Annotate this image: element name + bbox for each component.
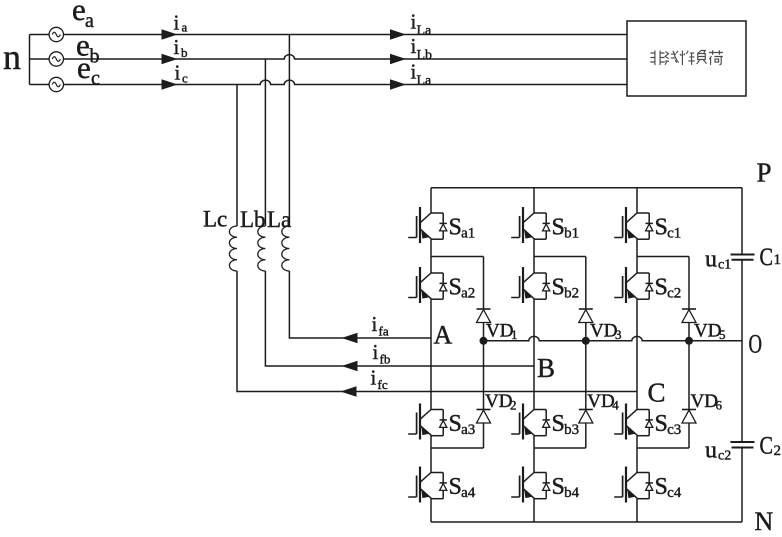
arrow ia [162, 29, 178, 39]
label Sa4 [449, 474, 476, 501]
label iLb [411, 34, 433, 63]
wire phase a [30, 34, 628, 36]
node B label [537, 353, 555, 383]
wire dc bus lower [741, 448, 743, 523]
svg-text:S: S [552, 411, 565, 437]
svg-text:P: P [757, 158, 772, 188]
svg-text:b4: b4 [564, 485, 580, 501]
wire drop from phase a to inductor La [288, 35, 290, 227]
junction dot at VD3-VD4 midpoint [582, 337, 590, 345]
svg-text:i: i [175, 61, 181, 85]
arrow iLb [390, 54, 406, 64]
svg-text:e: e [77, 50, 91, 85]
svg-text:La: La [417, 74, 433, 89]
transistor Sc2 [614, 267, 653, 303]
diode VD5 [682, 309, 696, 323]
svg-text:VD: VD [486, 321, 513, 342]
transistor Sa1 [408, 207, 447, 243]
svg-text:Lb: Lb [240, 207, 266, 232]
wire leg C vertical [636, 188, 638, 522]
svg-text:S: S [655, 411, 668, 437]
transistor Sa2 [408, 267, 447, 303]
svg-text:b3: b3 [564, 422, 579, 438]
wire leg B upper clamp tap [534, 256, 586, 258]
junction dot at VD1-VD2 midpoint [480, 337, 488, 345]
svg-text:VD: VD [694, 321, 721, 342]
svg-text:fa: fa [379, 324, 389, 339]
arrow ic [162, 79, 178, 89]
ac source ec [49, 77, 63, 91]
diode VD1 [477, 309, 491, 323]
label VD1 [486, 321, 518, 343]
label Lb [240, 207, 266, 232]
wire positive rail P [431, 187, 742, 189]
diode VD4 [579, 410, 593, 424]
label Sb4 [552, 474, 580, 501]
wire clamp column C middle [688, 323, 690, 410]
diode VD6 [682, 410, 696, 424]
wire clamp column C lower [688, 423, 690, 448]
svg-text:S: S [449, 275, 462, 301]
svg-text:C: C [760, 244, 774, 271]
svg-text:S: S [655, 215, 668, 241]
svg-text:1: 1 [774, 252, 782, 268]
svg-text:i: i [372, 312, 378, 336]
junction dot at VD5-VD6 midpoint [685, 337, 693, 345]
transistor Sb2 [511, 267, 550, 303]
label VD2 [485, 391, 517, 413]
svg-text:c2: c2 [667, 286, 681, 302]
label La [267, 207, 291, 232]
diode VD3 [579, 309, 593, 323]
label uc1 [705, 247, 731, 273]
wire leg B lower clamp tap [534, 447, 586, 449]
label C2 [760, 433, 782, 460]
svg-text:Lb: Lb [417, 48, 433, 63]
label ifa [372, 312, 389, 339]
label Sa1 [449, 215, 476, 242]
wire clamp column B middle [585, 323, 587, 410]
capacitor C2 [731, 442, 755, 448]
wire negative rail N [431, 521, 742, 523]
label Sb1 [552, 215, 580, 242]
label eb [76, 28, 100, 68]
svg-text:n: n [3, 37, 21, 77]
label VD3 [590, 321, 622, 343]
svg-text:C: C [648, 378, 666, 408]
label Sc3 [655, 411, 682, 438]
svg-text:u: u [705, 438, 717, 464]
node A label [434, 321, 453, 350]
transistor Sc3 [614, 404, 653, 440]
svg-text:La: La [267, 207, 291, 232]
svg-text:O: O [749, 330, 763, 359]
svg-text:b1: b1 [564, 226, 579, 242]
svg-text:a: a [182, 20, 188, 35]
svg-text:2: 2 [510, 398, 517, 413]
wire neutral vertical from node n [29, 35, 31, 85]
svg-text:i: i [174, 35, 180, 59]
wire phase b with hop over drop of phase a [30, 55, 628, 59]
svg-text:fb: fb [380, 352, 391, 367]
svg-text:C: C [760, 433, 774, 460]
svg-text:b2: b2 [564, 286, 579, 302]
load box text: he [709, 50, 723, 65]
label C1 [760, 244, 782, 271]
svg-text:u: u [705, 247, 717, 273]
load box text: fei [650, 51, 664, 66]
load box text: xian [665, 51, 679, 65]
svg-text:S: S [655, 474, 668, 500]
diode VD2 [477, 410, 491, 424]
svg-text:N: N [755, 507, 774, 536]
svg-text:a1: a1 [461, 226, 475, 242]
wire leg A lower clamp tap [431, 447, 484, 449]
inductor Lb [258, 226, 266, 271]
transistor Sb1 [511, 207, 550, 243]
wire clamp column B upper [585, 257, 587, 310]
svg-text:a4: a4 [461, 485, 476, 501]
svg-text:1: 1 [511, 327, 518, 342]
wire inductor Lc to node C [237, 271, 637, 392]
wire clamp column A upper [483, 257, 485, 310]
label Lc [203, 207, 227, 232]
label Sb3 [552, 411, 580, 438]
label VD4 [587, 391, 619, 413]
wire leg B vertical [533, 188, 535, 522]
wire drop from phase b to inductor Lb [264, 59, 266, 226]
transistor Sc1 [614, 207, 653, 243]
label VD5 [694, 321, 726, 343]
wire inductor Lb to node B [265, 271, 534, 366]
transistor Sa4 [408, 467, 447, 503]
wire leg A upper clamp tap [431, 256, 484, 258]
label ifb [373, 340, 391, 367]
wire leg C upper clamp tap [637, 256, 689, 258]
svg-text:A: A [434, 321, 453, 350]
label ic [175, 61, 189, 86]
svg-text:c1: c1 [718, 258, 731, 273]
svg-text:i: i [371, 366, 377, 390]
wire dc bus upper [741, 188, 743, 255]
wire leg A vertical [430, 188, 432, 522]
capacitor C1 [731, 255, 755, 260]
wire clamp column C upper [688, 257, 690, 310]
wire leg C lower clamp tap [637, 447, 689, 449]
wire clamp column B lower [585, 423, 587, 448]
label VD6 [691, 391, 723, 413]
label N [755, 507, 774, 536]
transistor Sa3 [408, 404, 447, 440]
label Sc4 [655, 474, 682, 501]
arrow iLc (marked La) [390, 79, 406, 89]
svg-text:S: S [655, 275, 668, 301]
svg-text:S: S [449, 474, 462, 500]
svg-text:S: S [449, 411, 462, 437]
arrow ifb [342, 361, 358, 371]
svg-text:3: 3 [615, 327, 622, 342]
node C label [648, 378, 666, 408]
transistor Sb4 [511, 467, 550, 503]
svg-text:B: B [537, 353, 555, 383]
load box text: fu [697, 50, 707, 64]
svg-text:fc: fc [378, 377, 388, 392]
label Sa2 [449, 275, 476, 302]
transistor Sb3 [511, 404, 550, 440]
label O [749, 330, 763, 359]
svg-text:a3: a3 [461, 422, 475, 438]
label ib [174, 35, 188, 60]
label Sa3 [449, 411, 476, 438]
wire inductor La to node A [289, 271, 431, 338]
label ifc [371, 366, 388, 393]
ac source ea [49, 27, 63, 41]
label Sb2 [552, 275, 580, 302]
arrow ib [162, 54, 178, 64]
wire drop from phase c to inductor Lc [236, 85, 238, 227]
label Sc1 [655, 215, 682, 242]
ac source eb [49, 52, 63, 66]
inductor La [282, 226, 290, 271]
svg-text:c3: c3 [667, 422, 681, 438]
label Sc2 [655, 275, 682, 302]
svg-text:2: 2 [774, 443, 782, 459]
svg-text:e: e [72, 0, 86, 27]
svg-text:c: c [182, 71, 188, 86]
label ec [77, 50, 100, 90]
label iLc (marked La) [411, 60, 433, 89]
svg-text:6: 6 [716, 398, 723, 413]
arrow ifc [341, 386, 357, 396]
label iLa [411, 10, 433, 39]
svg-text:c2: c2 [718, 449, 731, 464]
wire clamp column A middle [483, 323, 485, 410]
svg-text:S: S [449, 215, 462, 241]
label P [757, 158, 772, 188]
svg-text:a2: a2 [461, 286, 475, 302]
label ea [72, 0, 94, 32]
svg-text:VD: VD [590, 321, 617, 342]
arrow ifa [342, 333, 358, 343]
wire clamp column A lower [483, 423, 485, 448]
svg-text:b: b [181, 45, 188, 60]
svg-text:c4: c4 [667, 485, 682, 501]
wire neutral line O [484, 336, 743, 340]
svg-text:5: 5 [719, 327, 726, 342]
svg-text:S: S [552, 275, 565, 301]
transistor Sc4 [614, 467, 653, 503]
svg-text:i: i [373, 340, 379, 364]
load box text: xing [680, 51, 695, 66]
svg-text:b: b [90, 46, 100, 68]
svg-text:S: S [552, 474, 565, 500]
arrow iLa [390, 29, 406, 39]
label uc2 [705, 438, 731, 464]
label ia [174, 11, 188, 35]
svg-text:La: La [417, 24, 433, 39]
svg-text:i: i [174, 11, 180, 35]
svg-text:Lc: Lc [203, 207, 227, 232]
nonlinear load box [627, 21, 746, 96]
node n label [3, 37, 21, 77]
inductor Lc [229, 226, 237, 271]
svg-text:c1: c1 [667, 226, 681, 242]
wire phase c with hops over drops of phases a and b [30, 80, 628, 84]
svg-text:4: 4 [612, 398, 619, 413]
wire dc bus middle [741, 260, 743, 442]
svg-text:c: c [91, 68, 100, 90]
svg-text:S: S [552, 215, 565, 241]
